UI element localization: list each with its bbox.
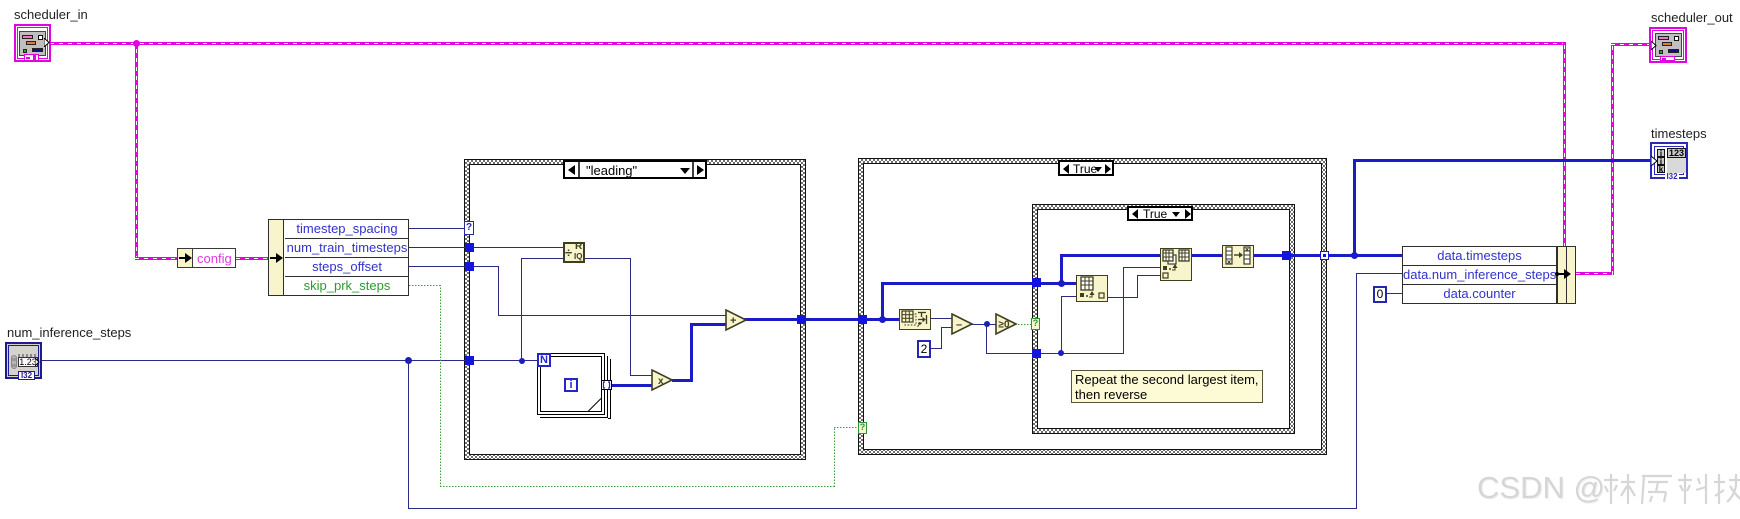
- wire: config to property node: [236, 257, 269, 260]
- junction timesteps branch: [1351, 252, 1358, 259]
- wire: inner index run: [1039, 353, 1124, 354]
- terminal timesteps indicator icon: [1650, 142, 1688, 179]
- wire: cluster into config node: [135, 257, 178, 260]
- svg-text:≥0: ≥0: [999, 320, 1010, 331]
- row num_train_timesteps: [285, 239, 409, 258]
- row steps_offset: [285, 258, 409, 277]
- selector label case3 "True": [1128, 207, 1192, 220]
- watermark CJK glyphs: [1602, 472, 1740, 508]
- wire: num_train_timesteps to quotient node: [409, 247, 563, 248]
- wire: size node to subtract: [931, 318, 953, 319]
- insert into array node: [1160, 248, 1192, 281]
- selector label case2 "True": [1059, 161, 1113, 175]
- wire: constant 0 to bundle: [1387, 293, 1402, 294]
- row skip_prk_steps: [285, 277, 409, 295]
- svg-text:–: –: [956, 319, 962, 331]
- terminal num_inference_steps icon: [5, 342, 42, 379]
- svg-text:x: x: [658, 376, 664, 387]
- wire: loop array tunnel to multiply (thick): [610, 384, 653, 387]
- row data.timesteps: [1403, 247, 1556, 266]
- add node: [725, 309, 748, 332]
- wire: insert to reverse (thick): [1192, 254, 1222, 257]
- wire: skip_prk_steps green dotted path: [409, 285, 441, 286]
- terminal scheduler_in icon: [14, 24, 51, 62]
- case2 selector ? green terminal: [858, 422, 867, 434]
- for loop frame: [537, 353, 605, 415]
- watermark CSDN: [1477, 470, 1605, 506]
- wire: multiply out up to add (thick): [672, 379, 693, 382]
- label timesteps: [1651, 126, 1707, 141]
- wire: timestep_spacing to case selector: [409, 228, 465, 229]
- label scheduler_in: [14, 7, 88, 22]
- junction case2 thick: [879, 316, 886, 323]
- wire: inner array run to insert node (thick): [1039, 282, 1078, 285]
- greater-equal-zero node: [995, 313, 1018, 336]
- wire: branch up to quotient divisor: [521, 258, 522, 360]
- tunnel inner case index input: [1032, 349, 1041, 358]
- terminal scheduler_out icon: [1649, 27, 1687, 63]
- unbundle node "config": [177, 248, 236, 268]
- wire: cluster down into bundle node: [1563, 42, 1566, 247]
- wire: add output to case2 (thick): [744, 318, 902, 321]
- array size node: [899, 309, 931, 330]
- svg-text:+: +: [730, 315, 736, 327]
- case structure 2 outer "True" frame: [858, 158, 1327, 455]
- case1 selector ? terminal: [464, 221, 474, 235]
- wire: bottom long num_inference run: [408, 360, 409, 508]
- subtract node: [951, 313, 974, 336]
- row timestep_spacing: [285, 220, 409, 239]
- bundle by name node: [1402, 246, 1576, 304]
- junction num_inference at x408: [405, 357, 412, 364]
- quotient-remainder node U1: [563, 242, 585, 263]
- tunnel case1 output: [797, 315, 806, 324]
- wire: index array out to insert elem input: [1108, 297, 1138, 298]
- tunnel inner case output: [1282, 251, 1291, 260]
- wire: cluster branch vertical to config: [135, 42, 138, 260]
- index array node: [1076, 275, 1108, 302]
- tunnel inner case array input: [1032, 278, 1041, 287]
- page curl: [588, 398, 602, 412]
- wire: bundle output to scheduler_out: [1576, 272, 1614, 275]
- wire: num_inference_steps main: [42, 360, 538, 361]
- case structure 3 inner "True" frame: [1032, 204, 1295, 434]
- i iteration terminal: [564, 378, 578, 392]
- tunnel steps_offset into case1: [465, 262, 474, 271]
- case3 selector ? green terminal: [1031, 318, 1040, 330]
- junction on cluster wire: [133, 40, 140, 47]
- wire: constant 2 to subtract: [931, 348, 942, 349]
- row data.counter: [1403, 285, 1556, 303]
- junction num_inference at x521: [519, 358, 525, 364]
- constant 2: [917, 340, 931, 358]
- loop auto-index tunnel []: [601, 380, 612, 390]
- tunnel num_train into case1: [465, 243, 474, 252]
- tunnel case2 output (hollow): [1320, 251, 1329, 260]
- wire: branch down to inner tunnel2: [986, 324, 987, 353]
- tunnel num_inference into case1: [465, 356, 474, 365]
- wire: steps_offset into case: [409, 266, 499, 267]
- wire: scheduler_in cluster top horizontal: [50, 42, 1566, 45]
- multiply node: [651, 369, 674, 392]
- comment box: [1071, 370, 1263, 403]
- row data.num_inference_steps: [1403, 266, 1556, 285]
- wire: up and right to timesteps indicator (thick): [1353, 159, 1356, 256]
- wire: branch up to inner tunnel (thick): [881, 282, 884, 321]
- reverse 1d array node: [1222, 245, 1254, 268]
- wire: quotient output down to multiply: [585, 258, 631, 259]
- constant 0: [1373, 286, 1387, 303]
- wire: comparison to inner selector green dotted: [1015, 324, 1031, 325]
- wire: i terminal to loop tunnel: [578, 385, 602, 386]
- label scheduler_out: [1651, 10, 1733, 25]
- wire: reverse to tunnels out (thick): [1254, 254, 1402, 257]
- selector label case1 "leading": [564, 161, 706, 178]
- tunnel case2 input: [858, 315, 867, 324]
- for loop stacked edges: [605, 356, 608, 418]
- label num_inference_steps: [7, 325, 131, 340]
- N count terminal: [537, 353, 551, 367]
- case structure 1 "leading" frame: [464, 159, 806, 460]
- wire: subtract to greater-equal: [971, 324, 997, 325]
- property node config rows: [268, 219, 409, 296]
